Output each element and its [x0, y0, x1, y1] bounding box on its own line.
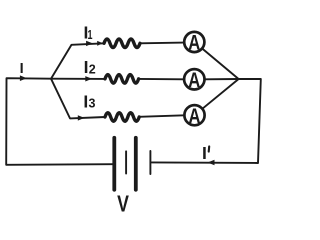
svg-text:1: 1 — [88, 28, 93, 42]
svg-text:I: I — [202, 143, 207, 163]
svg-text:A: A — [188, 68, 200, 92]
svg-text:I: I — [83, 92, 88, 112]
svg-text:3: 3 — [89, 97, 96, 111]
svg-text:2: 2 — [89, 63, 96, 77]
svg-text:A: A — [188, 31, 200, 55]
svg-text:A: A — [189, 104, 201, 128]
svg-text:I: I — [20, 61, 24, 77]
svg-text:V: V — [117, 191, 129, 217]
